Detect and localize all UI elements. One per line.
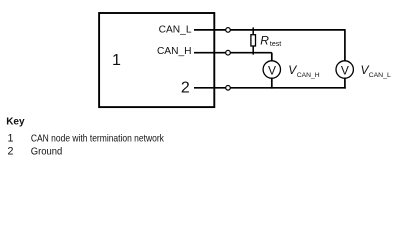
svg-text:test: test [270,41,281,48]
svg-text:1: 1 [8,133,14,145]
svg-text:1: 1 [112,52,121,69]
terminal circle on ground wire [226,86,231,91]
terminal circle on CAN_H [226,50,231,55]
CAN node box U1 [99,13,214,107]
svg-text:CAN_L: CAN_L [159,24,192,35]
wire ground horizontal (net 2) [194,87,346,89]
voltmeter U2 circle [263,61,280,78]
wire CAN_H horizontal [194,52,272,54]
svg-text:R: R [260,33,269,47]
svg-text:V: V [268,64,276,78]
svg-text:Ground: Ground [31,146,63,158]
wire CAN_L horizontal [194,29,345,31]
svg-text:CAN node with termination netw: CAN node with termination network [31,133,165,145]
svg-text:2: 2 [8,146,14,158]
svg-text:Key: Key [6,116,25,127]
svg-text:CAN_L: CAN_L [369,72,391,79]
svg-text:CAN_H: CAN_H [297,72,320,79]
svg-text:V: V [341,64,349,78]
wire CAN_L vertical drop to voltmeter U3 [344,29,346,61]
wire CAN_H vertical drop to voltmeter U2 [271,53,273,62]
wire resistor top lead / junction on CAN_L [252,27,254,35]
terminal circle on CAN_L [226,28,231,33]
svg-text:CAN_H: CAN_H [157,46,192,57]
wire voltmeter U3 to ground [344,78,346,89]
voltmeter U3 circle [336,61,353,78]
wire voltmeter U2 to ground [271,78,273,89]
resistor R_test body [251,35,256,46]
wire resistor bottom lead / junction on CAN_H [252,46,254,55]
svg-text:2: 2 [181,79,190,96]
